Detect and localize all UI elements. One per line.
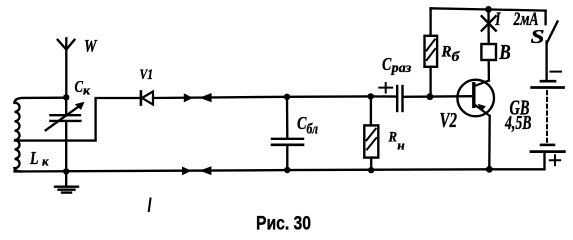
antenna W — [58, 38, 75, 97]
svg-text:В: В — [498, 40, 510, 64]
arrow right on top wire — [184, 93, 193, 102]
svg-text:к: к — [42, 154, 49, 169]
svg-text:I: I — [495, 9, 501, 30]
node emitter bottom junction — [486, 166, 493, 173]
meter break X — [482, 16, 496, 30]
wire meter branch — [487, 9, 490, 44]
svg-text:L: L — [29, 148, 38, 168]
label Ck — [75, 77, 91, 97]
label Lk — [29, 148, 49, 169]
ground — [55, 171, 78, 192]
capacitor Craz — [397, 86, 402, 111]
wire antenna line through Ck — [65, 97, 67, 171]
resistor Rb — [425, 8, 438, 96]
svg-text:н: н — [397, 138, 405, 153]
node Cbl bottom — [284, 167, 290, 173]
diode V1 — [141, 91, 153, 104]
wire Craz to base — [404, 95, 473, 98]
label Craz — [382, 54, 411, 75]
svg-text:W: W — [84, 36, 98, 56]
label Cbl — [297, 113, 318, 137]
svg-text:R: R — [441, 44, 452, 61]
label Rn — [388, 130, 405, 153]
wire box to collector — [488, 60, 491, 81]
svg-text:к: к — [83, 82, 90, 97]
svg-text:C: C — [382, 54, 392, 74]
node antenna/coil junction — [63, 94, 69, 100]
stray mark — [149, 199, 151, 212]
battery plus sign — [550, 155, 560, 165]
battery minus sign — [551, 71, 562, 73]
wire emitter to bottom rail — [488, 116, 491, 169]
svg-text:S: S — [531, 26, 545, 48]
svg-text:4,5В: 4,5В — [504, 112, 531, 134]
arrow right on bottom wire — [182, 167, 192, 176]
svg-text:Рис. 30: Рис. 30 — [256, 213, 311, 234]
arrow left on bottom wire — [200, 166, 212, 175]
wire Cbl node to Craz — [287, 95, 396, 98]
node ground junction — [63, 168, 69, 174]
transistor V2 — [457, 80, 494, 117]
wire coil top — [15, 98, 67, 103]
label Rb — [441, 44, 461, 65]
wire top rail — [431, 8, 546, 10]
svg-text:V2: V2 — [440, 108, 458, 132]
svg-text:V1: V1 — [140, 67, 154, 83]
node Rn bottom — [368, 167, 374, 173]
svg-text:раз: раз — [391, 60, 412, 75]
svg-text:бл: бл — [307, 121, 319, 137]
capacitor Craz polarity + — [379, 83, 392, 93]
battery GB — [531, 81, 564, 151]
node Rn top — [368, 93, 374, 99]
resistor Rn — [364, 96, 378, 170]
wire bottom rail — [15, 152, 545, 172]
wire switch to battery — [545, 42, 547, 81]
node Cbl top — [284, 94, 290, 100]
variable capacitor Ck — [46, 102, 85, 131]
node base/Rb junction — [427, 93, 434, 100]
wire diode to Cbl node — [153, 97, 287, 98]
wire coil tap to detector — [15, 98, 140, 141]
svg-text:R: R — [388, 130, 397, 146]
inductor Lk — [15, 103, 23, 172]
label I 2mA — [495, 9, 539, 30]
arrow left on top wire — [200, 93, 212, 102]
capacitor Cbl — [272, 97, 303, 170]
svg-text:б: б — [452, 50, 461, 65]
node collector rail junction — [485, 6, 492, 13]
switch S — [546, 11, 558, 43]
device B box — [481, 44, 496, 60]
